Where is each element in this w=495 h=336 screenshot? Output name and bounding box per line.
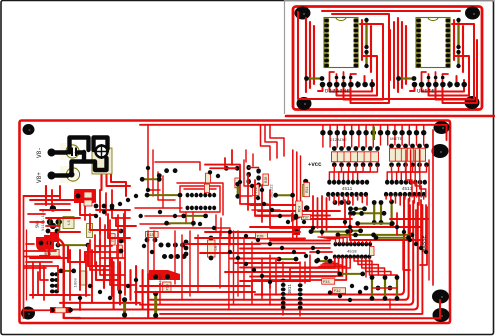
wires left block 2 bbox=[45, 186, 47, 205]
pads scatter left-mid bbox=[145, 238, 150, 243]
resistor R24 vertical bbox=[304, 183, 310, 197]
bottom edge wire of pasted image bbox=[286, 115, 494, 118]
pot P2B vertical bbox=[253, 185, 260, 196]
pad near +VCC bbox=[303, 179, 308, 184]
olive vertical below U3 a bbox=[373, 203, 375, 223]
mounting hole main TR1 bbox=[434, 121, 450, 134]
wires bottom-right links bbox=[372, 287, 397, 289]
olive jumper long mid bbox=[147, 194, 180, 196]
olive jumper mid 2 bbox=[354, 212, 384, 214]
wires U6 fanout top bbox=[330, 239, 336, 243]
wire bottom bus 5 bbox=[60, 302, 140, 304]
wires middle mesh A bbox=[155, 162, 200, 170]
svg-text:R24: R24 bbox=[306, 187, 310, 193]
wire loops around U2 bbox=[397, 18, 399, 92]
pads small above row U2 bbox=[427, 76, 431, 80]
svg-text:MC4: MC4 bbox=[298, 206, 302, 212]
capacitor C footprint circle 1 bbox=[66, 145, 79, 158]
olive jumper mid 7 bbox=[317, 260, 330, 262]
resistor R7 vertical bbox=[117, 245, 123, 258]
olive vertical right of U5 bbox=[237, 184, 239, 196]
pot P4 pads bbox=[39, 241, 44, 246]
black jumper wire pad-A lead bbox=[52, 150, 67, 154]
wires below jumper bbox=[100, 158, 102, 190]
wire bottom bus 4 bbox=[52, 203, 418, 310]
olive jumper above U5 bbox=[226, 167, 237, 169]
olive jumper right of U2 bbox=[457, 20, 459, 47]
olive jumper right of U1 bbox=[365, 20, 367, 47]
pads bottom right cluster bbox=[364, 286, 369, 291]
pads pair above U5 bbox=[164, 168, 169, 173]
connector J1 pad row bbox=[320, 130, 325, 135]
svg-text:DIZAINE: DIZAINE bbox=[325, 89, 350, 95]
display U1 body outline bbox=[324, 18, 358, 68]
svg-text:DIZAINE: DIZAINE bbox=[330, 139, 347, 143]
mounting hole main TR2 bbox=[432, 144, 449, 158]
connector row under U1 bbox=[320, 82, 326, 88]
transistor Q2 pads col bbox=[256, 168, 261, 173]
capacitor C1 plates bbox=[71, 148, 73, 157]
IC U5 pad row top bbox=[186, 193, 190, 198]
svg-text:4511: 4511 bbox=[342, 187, 353, 192]
mounting hole main BR1 bbox=[432, 290, 449, 304]
SW8 pads bbox=[47, 219, 53, 225]
pads under U3 bbox=[333, 200, 338, 205]
olive jumper mid 5 bbox=[376, 237, 409, 239]
black pad C1-1 bbox=[67, 149, 73, 155]
olive horizontal left stack 2 bbox=[351, 212, 362, 214]
wires 4011 area bbox=[282, 262, 284, 277]
svg-text:UNITE: UNITE bbox=[417, 89, 435, 95]
resistor R3W vertical bbox=[303, 185, 309, 197]
pot P4 red pour bbox=[36, 232, 58, 251]
svg-text:4511: 4511 bbox=[402, 187, 413, 192]
pot P37 bbox=[302, 215, 311, 220]
wires U4 bottom stubs bbox=[385, 196, 387, 199]
olive jumper MOD1 bbox=[61, 270, 74, 272]
wire left inner vertical bbox=[23, 196, 25, 318]
black jumper wire lower squiggle bbox=[84, 158, 107, 170]
footprint blocks behind jumpers bbox=[92, 148, 112, 174]
wire bottom bus 2 bbox=[150, 199, 409, 300]
wires RN1 to U3 bbox=[329, 166, 334, 180]
black jumper wire mid z bbox=[72, 152, 85, 174]
olive jumper mid 3 bbox=[358, 223, 393, 225]
olive jumper long bbox=[338, 234, 412, 236]
red filled pad triangle bbox=[291, 213, 301, 222]
wires J1 stubs to top bus bbox=[322, 125, 324, 132]
display U2 right pads bbox=[445, 18, 450, 22]
mounting hole main TL bbox=[23, 124, 35, 135]
wire top bus bbox=[140, 125, 447, 140]
olive jumper under cluster bbox=[276, 194, 293, 196]
svg-text:+VCC: +VCC bbox=[308, 161, 322, 168]
diode D2 vertical bbox=[87, 224, 93, 238]
resistor 2N5 vertical bbox=[109, 234, 115, 245]
connector MOD1 pads bbox=[50, 272, 55, 276]
wires U2 row stubs up bbox=[422, 72, 427, 82]
mounting hole top board BR bbox=[465, 96, 480, 109]
wires U3 bottom stubs bbox=[328, 196, 330, 200]
IC U4 pad row top bbox=[385, 180, 389, 185]
wires right bundle upper bbox=[406, 150, 412, 197]
wire right inner vertical bbox=[432, 130, 434, 285]
pads upper-left block bbox=[76, 194, 81, 199]
IC U3 pad row bottom bbox=[326, 192, 330, 197]
olive vertical below U3 c bbox=[391, 202, 393, 224]
wires E extra bbox=[24, 250, 56, 252]
pads below RN1 bbox=[332, 162, 337, 167]
wires J1 fanout down bbox=[322, 133, 324, 147]
small cap beige above U5 b bbox=[204, 184, 209, 193]
black pad C2-1 bbox=[69, 172, 75, 178]
via pads scattered bbox=[146, 166, 150, 170]
svg-text:4011: 4011 bbox=[288, 284, 293, 295]
display U1 right pads bbox=[353, 18, 358, 22]
wires band h2 bbox=[205, 231, 300, 233]
wires U1 bottom fanout bbox=[318, 87, 323, 91]
olive vertical below U3 b bbox=[380, 203, 382, 223]
red filled pad square bbox=[294, 229, 301, 236]
transistor Q1 pads col bbox=[246, 165, 251, 170]
black pad B bbox=[48, 172, 56, 180]
olive jumper left DIZAINE bbox=[307, 77, 323, 79]
olive horizontal left stack 1 bbox=[351, 208, 365, 210]
svg-text:P35: P35 bbox=[323, 281, 331, 285]
olive jumper left of U5 bbox=[142, 178, 159, 180]
pads right of P4 bbox=[119, 229, 124, 234]
wires RN2 to U4 bbox=[387, 166, 391, 180]
pasted image separator lines bbox=[284, 0, 286, 114]
IC U4 pad row bottom bbox=[384, 192, 388, 197]
black pad A bbox=[48, 149, 56, 157]
transistor QF pads row2 bbox=[162, 254, 167, 259]
black jumper wire pad-B lead bbox=[52, 173, 68, 177]
wire right inner vertical 2 bbox=[428, 160, 430, 280]
resistor R2B vertical bbox=[263, 174, 269, 185]
wire left vertical 2 bbox=[26, 230, 28, 300]
pads on red pour bbox=[153, 274, 158, 279]
svg-text:V8+: V8+ bbox=[36, 172, 43, 183]
wires mid drop bundle bbox=[261, 125, 271, 160]
wire bottom bus 7 bbox=[160, 205, 422, 314]
small beige R pair bbox=[84, 192, 92, 198]
wires U5 loops bbox=[180, 186, 220, 212]
mounting hole top board TR bbox=[465, 7, 480, 20]
svg-text:UNITE: UNITE bbox=[390, 138, 403, 142]
wires right bundle extra bbox=[420, 207, 427, 265]
pads above RN2 bbox=[389, 144, 394, 149]
pad mid bbox=[157, 173, 162, 178]
wires bottom verticals F bbox=[113, 262, 115, 310]
olive bar left bbox=[123, 300, 126, 315]
olive bar D1 bbox=[154, 294, 157, 316]
IC 4011 left pads bbox=[281, 279, 286, 283]
black jumper wire upper-right n bbox=[94, 138, 108, 151]
pads below RN2 bbox=[389, 162, 394, 167]
svg-text:4518: 4518 bbox=[347, 250, 357, 254]
wires U2 bottom fanout bbox=[410, 87, 415, 91]
main board outline bbox=[20, 121, 451, 324]
olive jumper mid 4 bbox=[311, 231, 348, 233]
wires left block bbox=[24, 195, 61, 197]
small cap beige above U5 bbox=[206, 173, 211, 183]
pot P10 bbox=[163, 282, 171, 293]
pot P3B bbox=[256, 232, 268, 239]
svg-text:V8-: V8- bbox=[36, 147, 43, 158]
olive jumper left UNITE bbox=[399, 77, 415, 79]
beige right of U5 bbox=[235, 178, 240, 188]
beige rect near MOD1 bbox=[79, 271, 87, 285]
olive jumper crossing J1 bbox=[372, 127, 375, 141]
wire bottom-left stub bbox=[24, 309, 51, 311]
mounting hole top board TL bbox=[295, 7, 311, 20]
fiducial target pad bbox=[96, 146, 108, 158]
relay LS body bbox=[63, 217, 74, 229]
display board outline bbox=[293, 7, 482, 110]
capacitor C footprint circle 2 bbox=[66, 168, 79, 181]
svg-text:100n: 100n bbox=[75, 277, 79, 287]
resistor network RN1 bbox=[332, 152, 379, 162]
olive jumper below U5 bbox=[184, 215, 206, 217]
IC U6 pad row bottom bbox=[333, 254, 337, 259]
pads small above row U1 bbox=[335, 76, 339, 80]
olive vertical trio bbox=[371, 278, 373, 299]
red blob upper bbox=[74, 191, 94, 203]
wire bottom bus 1 bbox=[255, 197, 404, 295]
olive horizontal left stack 3 bbox=[351, 230, 361, 232]
svg-text:P32: P32 bbox=[334, 290, 342, 294]
transistor QF pads row1 bbox=[159, 243, 164, 248]
resistor R bottom-left bbox=[50, 307, 56, 313]
svg-text:C5: C5 bbox=[215, 245, 219, 250]
wires mid band horizontals bbox=[250, 204, 300, 206]
mounting hole main BR2 bbox=[433, 308, 450, 322]
wires U1 row stubs up bbox=[330, 72, 335, 82]
wire bottom bus 3 bbox=[140, 201, 413, 305]
wires band h1 bbox=[205, 165, 240, 180]
display U2 body outline bbox=[416, 18, 450, 68]
wires mid band verticals bbox=[312, 196, 314, 232]
IC U3 pad row top bbox=[327, 180, 331, 185]
resistor network RN2 bbox=[390, 148, 426, 161]
wires left thick tangle bbox=[45, 236, 80, 318]
mounting hole top board BL bbox=[297, 97, 312, 110]
svg-text:LS: LS bbox=[68, 220, 72, 225]
IC U6 pad row top bbox=[334, 242, 338, 247]
red pour mid-bottom bbox=[149, 270, 180, 280]
wires U6 fanout bottom bbox=[325, 258, 335, 262]
wires U6 left staircase bbox=[290, 258, 335, 280]
olive jumper mid 6 bbox=[279, 258, 296, 260]
pot P13 bbox=[146, 231, 159, 237]
pads above RN1 bbox=[332, 146, 337, 151]
svg-text:R2B: R2B bbox=[265, 177, 269, 183]
pad big right bbox=[304, 205, 310, 211]
mounting hole main BL bbox=[21, 307, 35, 320]
wire bottom bus 6 bbox=[75, 300, 440, 318]
beige box right of U6 bbox=[370, 247, 375, 256]
wires transistor cluster bbox=[244, 160, 250, 186]
capacitor C5 bbox=[208, 240, 216, 257]
IC 4011 right pads bbox=[298, 283, 303, 287]
olive vertical SW8 bbox=[58, 219, 60, 232]
wire loops around U1 bbox=[305, 18, 307, 92]
pot P35 bbox=[322, 279, 335, 285]
IC U5 pad row bottom bbox=[186, 206, 190, 211]
black jumper wire upper-left n bbox=[70, 138, 89, 152]
pot P32 bbox=[333, 288, 346, 294]
pot P4 label bbox=[45, 249, 59, 256]
wires bottom-left extra bbox=[30, 295, 80, 310]
olive jumper mid 8 bbox=[340, 273, 363, 275]
display U1 left pads bbox=[324, 18, 329, 22]
connector row under U2 bbox=[412, 82, 418, 88]
olive jumper P4 bbox=[58, 244, 88, 246]
cap MC4 vertical bbox=[296, 201, 303, 217]
black jumper wire cap link bbox=[77, 150, 84, 154]
wires bottom mid verticals bbox=[147, 231, 149, 300]
wires top-board interconnect bbox=[298, 12, 470, 99]
olive jumper below U5 2 bbox=[167, 222, 194, 224]
display U2 left pads bbox=[416, 18, 421, 22]
